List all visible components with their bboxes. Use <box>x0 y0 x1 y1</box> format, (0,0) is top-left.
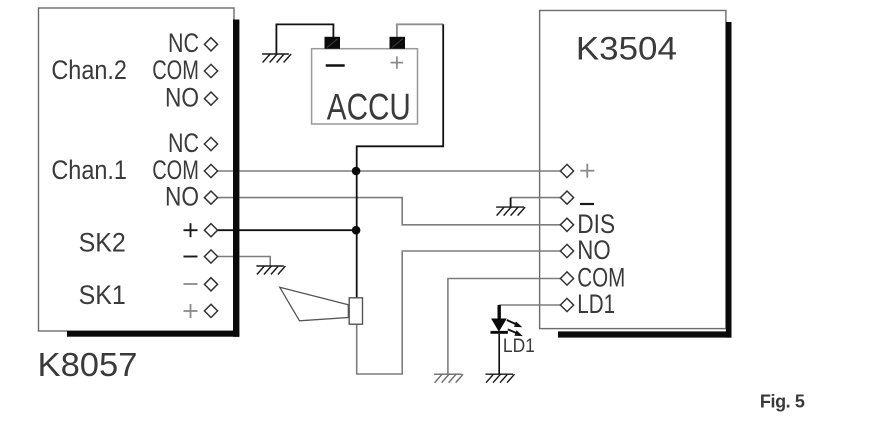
svg-text:NO: NO <box>165 182 199 212</box>
svg-text:Fig. 5: Fig. 5 <box>760 392 805 412</box>
svg-text:NO: NO <box>577 235 610 265</box>
svg-text:ACCU: ACCU <box>327 87 411 128</box>
svg-text:K3504: K3504 <box>576 30 677 66</box>
svg-text:COM: COM <box>152 55 199 85</box>
svg-text:K8057: K8057 <box>38 346 138 383</box>
svg-text:LD1: LD1 <box>503 335 535 357</box>
svg-text:SK1: SK1 <box>79 280 126 310</box>
svg-text:NC: NC <box>168 128 199 158</box>
svg-text:NC: NC <box>168 28 199 58</box>
svg-text:NO: NO <box>165 82 199 112</box>
svg-text:COM: COM <box>152 155 199 185</box>
svg-text:SK2: SK2 <box>79 228 126 258</box>
svg-text:Chan.1: Chan.1 <box>51 155 127 185</box>
svg-text:LD1: LD1 <box>577 289 615 319</box>
svg-text:Chan.2: Chan.2 <box>51 55 127 85</box>
